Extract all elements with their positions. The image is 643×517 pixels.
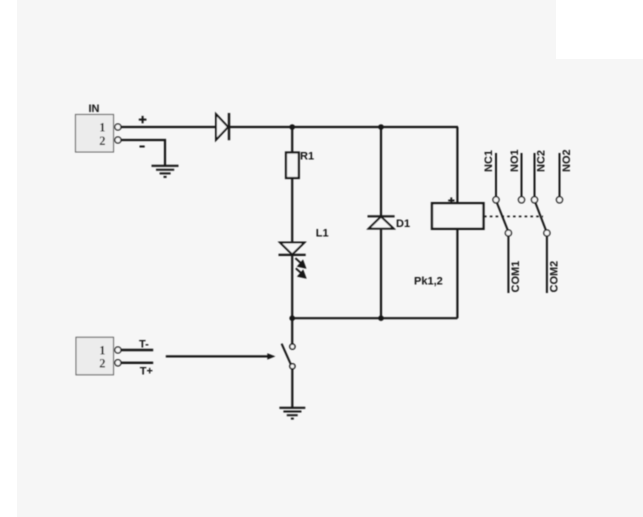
svg-text:R1: R1: [300, 151, 314, 163]
svg-text:COM2: COM2: [549, 261, 561, 293]
svg-text:L1: L1: [316, 227, 329, 239]
svg-text:NC2: NC2: [535, 150, 547, 172]
svg-text:T+: T+: [140, 365, 153, 377]
svg-text:2: 2: [99, 134, 105, 148]
svg-text:NO1: NO1: [509, 149, 521, 172]
svg-text:Pk1,2: Pk1,2: [414, 276, 443, 288]
svg-text:NC1: NC1: [483, 150, 495, 172]
svg-text:NO2: NO2: [561, 149, 573, 172]
svg-text:1: 1: [99, 121, 105, 135]
svg-text:D1: D1: [396, 218, 410, 230]
svg-text:2: 2: [99, 357, 105, 371]
svg-text:IN: IN: [89, 103, 100, 115]
svg-text:T-: T-: [139, 339, 149, 351]
svg-text:COM1: COM1: [510, 261, 522, 293]
svg-text:1: 1: [99, 343, 105, 357]
